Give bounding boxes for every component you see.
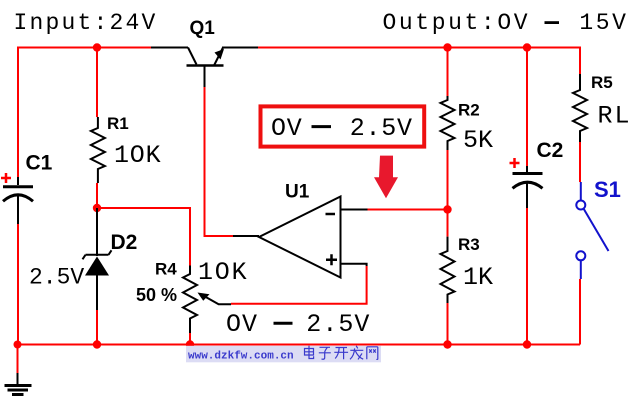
resistor R5: [573, 74, 587, 142]
wire R1 bottom red: [96, 183, 98, 208]
wire bottom rail red: [18, 344, 581, 346]
junction dot top C2: [523, 43, 531, 51]
watermark cjk 电: [305, 346, 314, 359]
wire C2 bottom black: [526, 166, 528, 208]
capacitor C1: [3, 187, 33, 202]
transistor Q1: [187, 48, 225, 88]
wire junction to R4: [97, 208, 190, 266]
annotation arrow red: [374, 156, 398, 199]
watermark background: [186, 346, 381, 363]
wire R2 bottom red: [447, 150, 449, 237]
junction dot rail D2: [93, 340, 101, 348]
junction dot top R2: [443, 43, 451, 51]
wire U1 plus black: [341, 264, 367, 266]
svg-text:D2: D2: [111, 231, 138, 254]
wire U1 plus red down: [231, 266, 367, 304]
wire R4 bottom red: [189, 333, 191, 345]
svg-text:U1: U1: [285, 182, 310, 203]
pin plus U1: [326, 254, 337, 265]
svg-text:C2: C2: [537, 139, 564, 162]
diode D2 zener: [83, 208, 112, 310]
wire top rail black to Q1: [151, 47, 188, 49]
svg-text:R5: R5: [591, 73, 613, 92]
dash feedback: [274, 322, 293, 325]
junction dot rail R4: [186, 340, 194, 348]
wire U1 minus black: [341, 209, 368, 211]
potentiometer R4: [183, 266, 197, 334]
ground: [5, 345, 32, 395]
svg-text:C1: C1: [26, 152, 53, 175]
wire top rail black from Q1: [222, 47, 258, 49]
wire R1 top red: [96, 48, 98, 118]
wire C2 top red: [526, 48, 528, 167]
svg-text:RL: RL: [598, 102, 632, 131]
wiper arrow R4: [198, 293, 232, 305]
wire R5 bottom red: [579, 142, 581, 182]
watermark cjk 网: [367, 347, 378, 360]
svg-text:Output:OV 15V: Output:OV 15V: [383, 10, 629, 36]
wire S1 bottom red: [579, 279, 581, 345]
polarity plus C2: [510, 158, 520, 168]
svg-text:R2: R2: [458, 101, 480, 120]
wire top rail red left: [18, 48, 151, 178]
svg-text:www.dzkfw.com.cn: www.dzkfw.com.cn: [188, 351, 294, 363]
switch S1: [576, 182, 608, 279]
wire D2 bottom red: [96, 310, 98, 345]
junction dot minus R2 R3: [443, 205, 451, 213]
watermark cjk 发: [350, 346, 363, 360]
junction dot rail left: [14, 341, 22, 349]
svg-text:1OK: 1OK: [198, 258, 248, 287]
resistor R2: [441, 96, 455, 150]
watermark cjk 子: [319, 347, 331, 359]
junction dot rail R3: [443, 340, 451, 348]
junction dot rail C2: [523, 340, 531, 348]
polarity plus C1: [1, 173, 11, 183]
wire R5 top red: [579, 73, 581, 75]
wire op-amp output black: [233, 235, 259, 237]
svg-text:5K: 5K: [463, 126, 493, 155]
wire R2 top red: [447, 48, 449, 97]
wire Q1 base red: [205, 87, 234, 236]
svg-text:OV 2.5V: OV 2.5V: [271, 114, 413, 143]
watermark cjk 开: [334, 348, 348, 360]
svg-text:2.5V: 2.5V: [29, 265, 84, 291]
wire U1 minus red: [368, 209, 448, 211]
wire R3 bottom red: [447, 303, 449, 345]
svg-text:1K: 1K: [463, 263, 493, 292]
wire C1 bottom black: [17, 177, 19, 224]
svg-text:R3: R3: [458, 235, 480, 254]
junction dot R1 bottom: [93, 204, 101, 212]
svg-text:S1: S1: [594, 177, 621, 202]
svg-text:50 %: 50 %: [136, 285, 177, 305]
wire C2 bottom red: [526, 208, 528, 345]
resistor R1: [91, 117, 105, 183]
svg-text:OV 2.5V: OV 2.5V: [226, 310, 370, 339]
svg-text:R4: R4: [155, 260, 177, 279]
junction dot top R1: [93, 43, 101, 51]
resistor R3: [441, 237, 455, 309]
wire C1 bottom red: [17, 224, 19, 345]
svg-text:Q1: Q1: [190, 18, 216, 39]
svg-text:Input:24V: Input:24V: [14, 10, 158, 36]
wire top rail red right: [258, 48, 580, 75]
op-amp U1: [259, 197, 341, 278]
pin minus U1: [326, 213, 336, 216]
dash annotation box: [312, 125, 332, 128]
svg-text:1OK: 1OK: [114, 141, 161, 170]
dash output: [545, 21, 560, 24]
capacitor C2: [513, 174, 543, 189]
annotation box 0V - 2.5V: [261, 106, 425, 146]
svg-text:R1: R1: [107, 114, 129, 133]
